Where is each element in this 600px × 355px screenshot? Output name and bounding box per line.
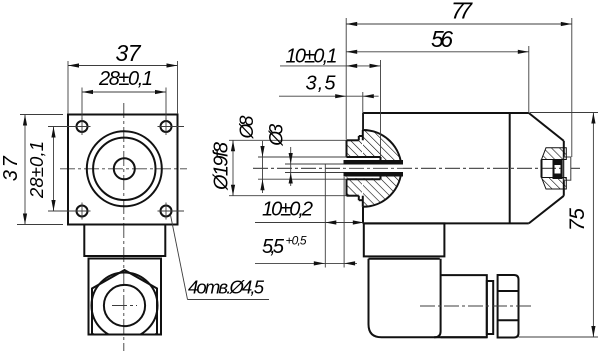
hatched dome section — [347, 130, 402, 207]
flange middle circle — [93, 138, 155, 200]
main body outline — [363, 113, 529, 223]
svg-text:37: 37 — [0, 155, 22, 181]
right end plug protrusion — [564, 157, 571, 180]
dim 37 left: ext lines — [17, 115, 63, 225]
svg-text:28±0,1: 28±0,1 — [98, 68, 153, 90]
flange outer circle — [87, 131, 162, 206]
dim 28±0,1 left: ext lines — [48, 127, 77, 212]
dim 10±0,2 — [255, 199, 364, 225]
leader 4 holes — [171, 215, 270, 300]
svg-text:Ø8: Ø8 — [237, 115, 258, 139]
top ext line x346 — [345, 18, 347, 139]
svg-text:5,5: 5,5 — [262, 236, 285, 258]
neck below flange — [84, 225, 165, 257]
dim 5,5+0,5 — [255, 234, 357, 266]
svg-text:Ø19f8: Ø19f8 — [211, 142, 233, 191]
dim 77 — [346, 0, 572, 26]
top ext line x571.8 for 77 — [571, 18, 573, 157]
dim 37 left line — [0, 115, 27, 225]
svg-text:75: 75 — [566, 208, 589, 231]
svg-text:56: 56 — [431, 26, 453, 52]
bolt hole top-right — [158, 118, 185, 135]
svg-text:+0,5: +0,5 — [286, 234, 307, 248]
boss bottom groove — [359, 196, 363, 207]
dim 75 ext top — [530, 112, 598, 114]
connector housing — [434, 275, 487, 337]
svg-text:37: 37 — [116, 40, 142, 66]
right end plug: hatched top band — [542, 148, 567, 160]
connector cap — [498, 275, 519, 338]
dim 10±0,1 — [280, 46, 381, 69]
plug nut squares — [554, 160, 562, 180]
dim 37 top: ext lines — [68, 61, 178, 114]
ext vertical x325.3 — [324, 164, 326, 268]
boss top groove — [359, 130, 363, 140]
connector centerline — [420, 305, 534, 307]
plug bore seat — [541, 160, 543, 178]
top ext line x362.8 for 3,5 — [362, 92, 364, 130]
hex nut assembly clipped — [92, 270, 158, 352]
dim 28±0,1 top: ext lines — [82, 88, 166, 121]
guide tube — [344, 160, 404, 177]
svg-text:28±0,1: 28±0,1 — [26, 141, 47, 199]
top ext line x528.8 for 56 — [528, 46, 530, 113]
ext vertical x344.1 — [343, 177, 345, 268]
bolt hole bottom-left — [74, 203, 91, 220]
dim 28±0,1 left line — [26, 127, 56, 212]
right end plug: hatched bottom band — [542, 178, 567, 190]
lower body — [89, 259, 162, 335]
dia19f8 extension lines — [229, 140, 347, 195]
centerline vertical left view — [123, 103, 125, 351]
bolt hole bottom-right — [158, 203, 185, 220]
mounting block below body — [364, 223, 445, 256]
dim 28±0,1 top line — [82, 68, 166, 94]
dim 75 ext bottom — [519, 336, 599, 338]
svg-text:Ø3: Ø3 — [267, 123, 288, 146]
dia3 extension lines — [285, 164, 344, 173]
svg-text:10±0,1: 10±0,1 — [286, 46, 338, 68]
dim 3,5 — [279, 73, 379, 99]
dim 75 — [566, 113, 596, 338]
dim 37 top line — [68, 40, 178, 68]
centerline horizontal left view — [60, 168, 187, 170]
hex center dash — [112, 305, 137, 307]
flange square — [68, 115, 178, 225]
dim dia19f8 — [211, 140, 236, 195]
dim dia8 — [237, 115, 265, 193]
right frustum — [529, 113, 564, 223]
svg-text:4отв.Ø4,5: 4отв.Ø4,5 — [188, 277, 265, 298]
dim 56 — [346, 26, 529, 54]
svg-text:77: 77 — [451, 0, 473, 24]
svg-text:3,5: 3,5 — [306, 73, 337, 95]
coil body — [369, 259, 441, 338]
coil top edge — [369, 258, 440, 260]
port boss outline — [347, 140, 359, 195]
bolt hole top-left — [74, 118, 91, 135]
top ext line x380.5 for 10±0,1 — [380, 60, 382, 157]
centerline main axis — [253, 167, 580, 169]
dim dia3 — [267, 123, 293, 186]
connector collar — [487, 281, 493, 334]
flange inner circle — [114, 158, 135, 179]
svg-text:10±0,2: 10±0,2 — [262, 199, 313, 221]
centerline overlay on tube — [253, 167, 580, 169]
counterbore slot white — [347, 157, 381, 179]
dia8 extension lines — [258, 157, 347, 179]
